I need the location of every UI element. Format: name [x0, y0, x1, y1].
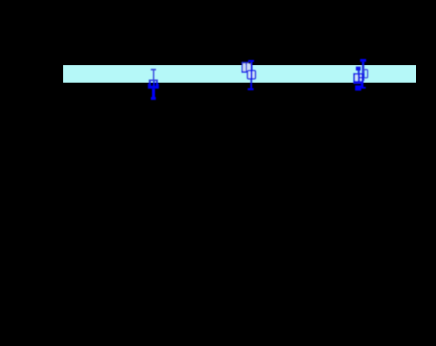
breaker Q2 upper square divider	[246, 63, 247, 71]
ground pad G3	[355, 85, 361, 90]
switch S3 mid connector	[360, 77, 364, 79]
switch S3 right pane	[360, 75, 362, 81]
load L1 foot	[151, 97, 156, 100]
switch S3 square top edge	[353, 73, 363, 75]
load L1 web right	[155, 86, 156, 89]
load L1 center post	[153, 81, 155, 83]
feeder 3 wire mid	[362, 73, 364, 81]
feeder 1 terminal T1	[151, 69, 156, 71]
breaker Q2 lower square	[248, 71, 256, 79]
switch S3 square left edge	[353, 73, 355, 83]
transformer W3 blob stem	[358, 71, 360, 74]
switch S3 left pane	[355, 75, 358, 81]
load L1 right post	[156, 81, 158, 83]
feeder 1 wire	[153, 70, 154, 80]
load L1 web left	[151, 86, 153, 89]
busbar B1	[63, 65, 416, 83]
load L1 stem	[152, 89, 155, 97]
breaker Q2 upper square right pane	[247, 63, 250, 71]
feeder 2 bottom terminal	[248, 88, 254, 90]
feeder 3 wire upper	[362, 62, 364, 65]
switch S3 bottom edge	[353, 81, 363, 84]
feeder 2 wire lower	[250, 80, 252, 83]
breaker Q2 upper square bottom edge	[242, 71, 248, 73]
feeder 2 wire upper	[251, 62, 253, 80]
load L1 left flange	[147, 84, 150, 89]
capacitor C3 right rectangle	[364, 70, 368, 78]
feeder 2 terminal T2	[248, 60, 254, 62]
breaker Q2 upper square left edge	[242, 62, 243, 73]
switch S3 divider	[358, 73, 360, 83]
breaker Q2 upper square left pane	[243, 63, 246, 71]
transformer W3 node blob	[356, 67, 361, 71]
load L1 left post	[149, 81, 151, 83]
ground pad G3 right bar	[361, 87, 366, 89]
feeder 3 wire lower	[361, 84, 364, 87]
load L1 right flange	[157, 84, 160, 89]
switch S3 right edge	[362, 73, 364, 83]
load L1 top bar	[149, 80, 158, 82]
breaker Q2 upper square top edge	[242, 62, 249, 64]
feeder 3 terminal T3	[360, 59, 366, 62]
